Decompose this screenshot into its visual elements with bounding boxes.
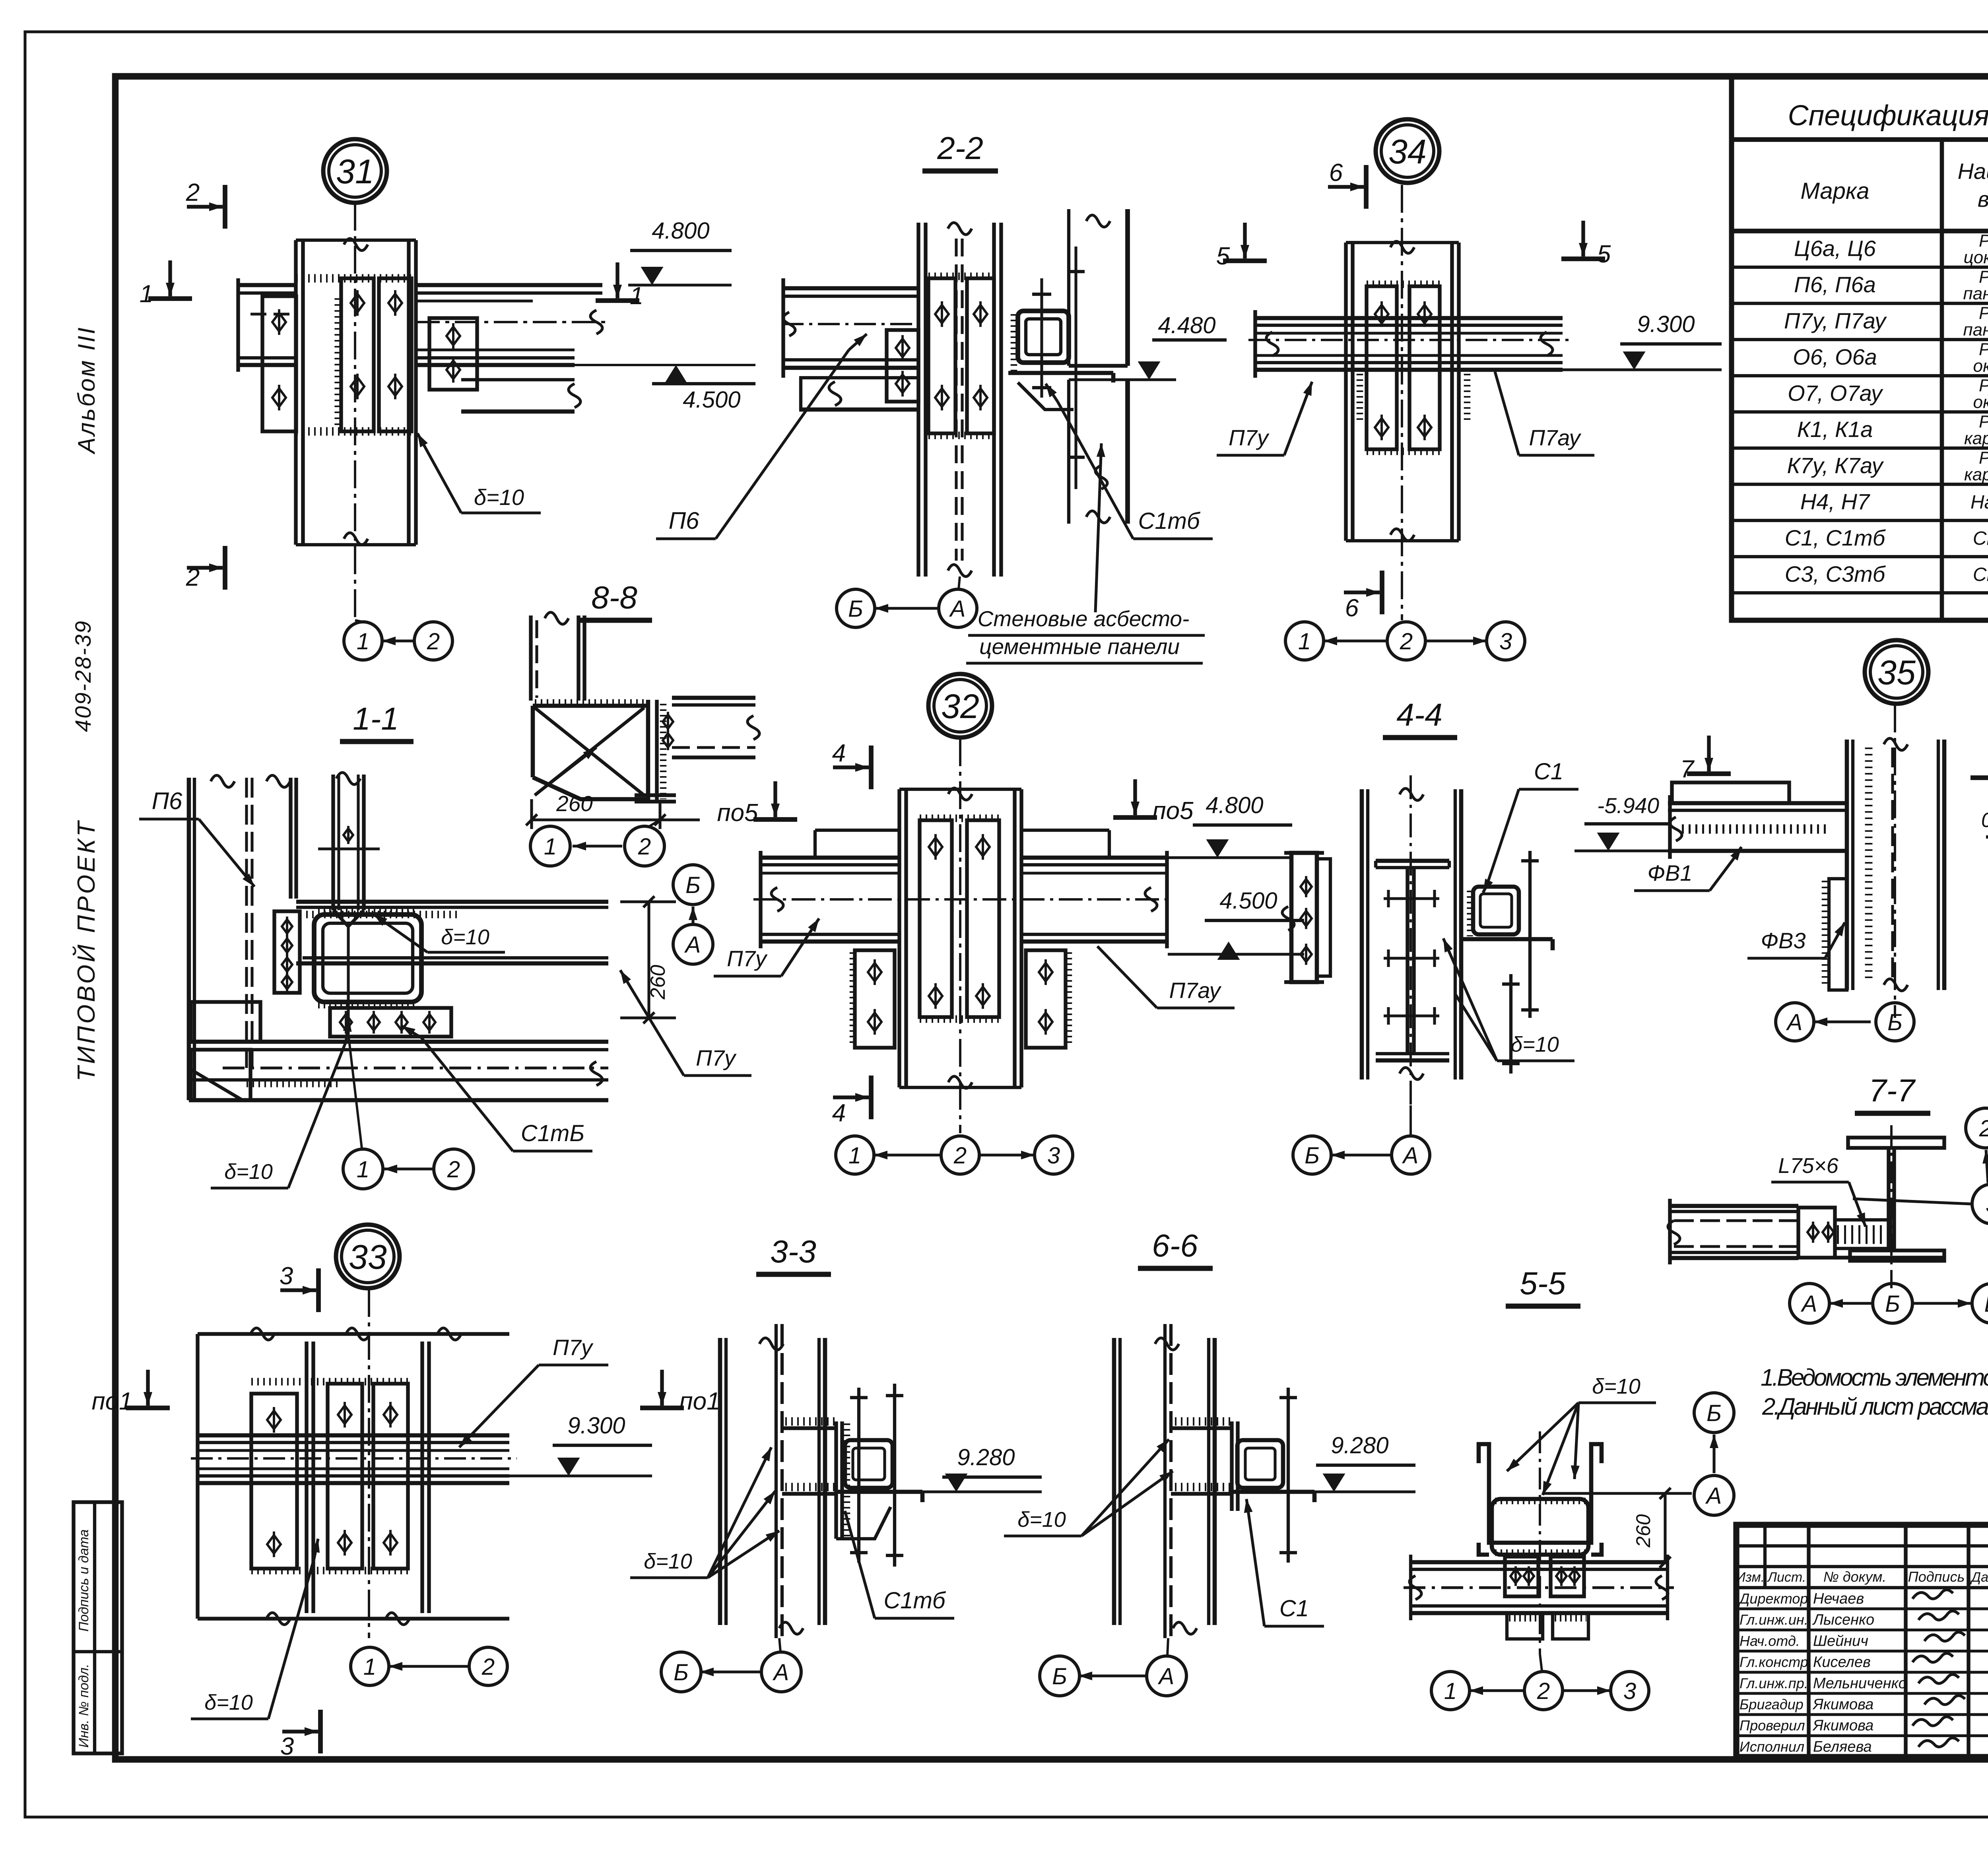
section 2-2 bbox=[782, 130, 1227, 663]
svg-text:П7у: П7у bbox=[696, 1045, 737, 1070]
svg-text:1: 1 bbox=[1444, 1678, 1457, 1704]
grid bubbles 2-3 bbox=[1966, 1108, 1988, 1148]
svg-text:Б: Б bbox=[685, 872, 701, 898]
svg-text:δ=10: δ=10 bbox=[441, 925, 489, 949]
svg-text:П7ау: П7ау bbox=[1529, 425, 1581, 450]
svg-text:4: 4 bbox=[832, 740, 846, 767]
svg-text:2: 2 bbox=[638, 834, 651, 860]
section 7-7 bbox=[1668, 1073, 1988, 1323]
svg-text:4.500: 4.500 bbox=[1219, 888, 1277, 914]
svg-text:δ=10: δ=10 bbox=[1592, 1375, 1640, 1398]
sidebar album text bbox=[73, 326, 100, 454]
label P6 leader bbox=[656, 334, 867, 539]
svg-text:4: 4 bbox=[832, 1099, 846, 1127]
svg-text:С1: С1 bbox=[1534, 759, 1563, 784]
svg-text:П7у: П7у bbox=[553, 1335, 594, 1360]
square tube S1 bbox=[1237, 1440, 1283, 1488]
svg-text:32: 32 bbox=[941, 687, 979, 726]
svg-text:260: 260 bbox=[556, 791, 593, 816]
svg-text:П7у, П7ау: П7у, П7ау bbox=[1784, 308, 1887, 333]
grid bubbles 1-2-3 bbox=[1285, 622, 1324, 660]
grid bubbles 1-2 bbox=[530, 826, 570, 866]
svg-text:5: 5 bbox=[1597, 241, 1611, 268]
grid bubbles 1-2 bbox=[344, 622, 382, 660]
grid bubbles 1-2 bbox=[343, 1149, 383, 1189]
svg-text:Дата: Дата bbox=[1970, 1570, 1988, 1585]
svg-text:34: 34 bbox=[1388, 133, 1427, 171]
svg-text:Исполнил: Исполнил bbox=[1739, 1738, 1804, 1755]
elevation 4.500 bbox=[664, 365, 687, 383]
svg-text:1: 1 bbox=[357, 629, 369, 654]
svg-text:7: 7 bbox=[1680, 755, 1695, 783]
svg-text:δ=10: δ=10 bbox=[224, 1160, 273, 1184]
svg-text:карнизный: карнизный bbox=[1964, 465, 1988, 484]
svg-text:П7у: П7у bbox=[727, 946, 768, 971]
svg-text:оконный: оконный bbox=[1973, 356, 1988, 376]
grid bubbles 1-2 bbox=[351, 1647, 389, 1685]
svg-text:Киселев: Киселев bbox=[1813, 1654, 1871, 1671]
svg-text:П7у: П7у bbox=[1229, 425, 1270, 450]
grid bubbles B-A bbox=[837, 589, 875, 627]
svg-text:Якимова: Якимова bbox=[1812, 1696, 1873, 1713]
section 6-6 bbox=[1004, 1228, 1415, 1696]
svg-text:Нечаев: Нечаев bbox=[1813, 1590, 1864, 1607]
svg-text:ТИПОВОЙ ПРОЕКТ: ТИПОВОЙ ПРОЕКТ bbox=[72, 819, 100, 1081]
svg-text:Лысенко: Лысенко bbox=[1812, 1611, 1874, 1628]
square tube S1 bbox=[1473, 887, 1519, 934]
svg-text:ФВ1: ФВ1 bbox=[1647, 860, 1692, 885]
section 3-3 bbox=[661, 1234, 1042, 1692]
svg-text:Беляева: Беляева bbox=[1813, 1738, 1872, 1755]
svg-text:7-7: 7-7 bbox=[1869, 1073, 1916, 1108]
svg-text:9.300: 9.300 bbox=[567, 1413, 625, 1439]
svg-text:4.800: 4.800 bbox=[1206, 792, 1263, 818]
svg-text:5-5: 5-5 bbox=[1520, 1266, 1566, 1301]
svg-text:δ=10: δ=10 bbox=[474, 485, 524, 510]
svg-text:Инв. № подл.: Инв. № подл. bbox=[76, 1664, 91, 1748]
svg-text:1: 1 bbox=[357, 1157, 369, 1182]
svg-text:Гл.инж.пр.: Гл.инж.пр. bbox=[1739, 1675, 1808, 1691]
grid bubbles 1-2-3 bbox=[1431, 1672, 1470, 1710]
grid bubbles B-A vertical bbox=[673, 865, 713, 964]
square tube plan bbox=[314, 914, 421, 1002]
svg-text:цокольный: цокольный bbox=[1964, 248, 1988, 267]
svg-text:Бригадир: Бригадир bbox=[1739, 1696, 1804, 1712]
svg-text:С1тб: С1тб bbox=[1138, 508, 1200, 534]
svg-text:С3, С3тб: С3, С3тб bbox=[1785, 561, 1886, 586]
svg-text:31: 31 bbox=[336, 153, 374, 191]
svg-text:2: 2 bbox=[1400, 629, 1413, 654]
detail node 35 bbox=[1574, 640, 1988, 1041]
general notes bbox=[1761, 1364, 1988, 1420]
grid bubbles 1-2-3 bbox=[836, 1136, 874, 1174]
sidebar stamp box bbox=[74, 1502, 122, 1753]
svg-text:вание: вание bbox=[1978, 186, 1988, 212]
grid bubbles A-B bbox=[1776, 1003, 1814, 1041]
svg-text:карнизный: карнизный bbox=[1964, 429, 1988, 448]
svg-text:6-6: 6-6 bbox=[1152, 1228, 1198, 1263]
svg-text:А: А bbox=[949, 596, 966, 622]
svg-text:2: 2 bbox=[1979, 1116, 1988, 1142]
svg-text:1: 1 bbox=[544, 834, 557, 860]
grid bubbles B-A bbox=[1040, 1656, 1079, 1696]
svg-text:по5: по5 bbox=[717, 799, 758, 827]
svg-text:Изм.: Изм. bbox=[1736, 1570, 1765, 1585]
svg-text:1-1: 1-1 bbox=[353, 701, 399, 736]
svg-text:3: 3 bbox=[1623, 1678, 1636, 1704]
svg-text:0.000: 0.000 bbox=[1981, 809, 1988, 832]
svg-text:Б: Б bbox=[848, 596, 863, 622]
svg-text:2.Данный лист рассматривать со: 2.Данный лист рассматривать совместно с … bbox=[1762, 1393, 1988, 1420]
svg-text:260: 260 bbox=[1632, 1514, 1654, 1548]
svg-text:1: 1 bbox=[363, 1654, 376, 1680]
svg-text:L75×6: L75×6 bbox=[1778, 1154, 1839, 1178]
detail node 31 bbox=[140, 139, 755, 660]
svg-text:А: А bbox=[684, 932, 701, 958]
svg-text:6: 6 bbox=[1329, 159, 1343, 186]
svg-text:Столик: Столик bbox=[1973, 528, 1988, 549]
svg-text:3: 3 bbox=[1986, 1192, 1988, 1217]
svg-text:цементные панели: цементные панели bbox=[979, 634, 1180, 659]
dim 260 vertical bbox=[647, 902, 650, 1018]
svg-text:А: А bbox=[773, 1660, 789, 1685]
svg-text:-5.940: -5.940 bbox=[1597, 793, 1659, 818]
svg-text:35: 35 bbox=[1877, 654, 1916, 692]
svg-text:δ=10: δ=10 bbox=[1017, 1508, 1066, 1532]
svg-text:5: 5 bbox=[1216, 243, 1230, 270]
detail node 33 bbox=[91, 1225, 720, 1760]
svg-text:Директор: Директор bbox=[1738, 1590, 1808, 1607]
svg-text:2: 2 bbox=[186, 564, 200, 591]
svg-text:3: 3 bbox=[280, 1262, 293, 1290]
svg-text:4.500: 4.500 bbox=[683, 387, 740, 413]
svg-text:О6, О6а: О6, О6а bbox=[1793, 344, 1877, 369]
svg-text:П6, П6а: П6, П6а bbox=[1794, 272, 1876, 297]
grid bubbles A-B-V bbox=[1790, 1283, 1829, 1323]
svg-text:Нач.отд.: Нач.отд. bbox=[1739, 1633, 1800, 1649]
detail node 32 bbox=[714, 674, 1304, 1174]
svg-text:4-4: 4-4 bbox=[1396, 697, 1442, 732]
svg-text:2: 2 bbox=[1537, 1678, 1550, 1704]
label d=10 with fan leaders bbox=[630, 1447, 779, 1578]
svg-text:А: А bbox=[1705, 1483, 1722, 1509]
svg-text:Подпись: Подпись bbox=[1908, 1569, 1965, 1585]
svg-text:9.280: 9.280 bbox=[1331, 1433, 1388, 1458]
dim 260 bbox=[1664, 1493, 1666, 1562]
svg-text:Проверил: Проверил bbox=[1739, 1717, 1805, 1734]
svg-text:3: 3 bbox=[280, 1733, 294, 1760]
svg-text:В: В bbox=[1984, 1291, 1988, 1317]
svg-text:Наимено-: Наимено- bbox=[1958, 159, 1988, 184]
svg-text:Б: Б bbox=[1052, 1664, 1067, 1689]
svg-text:8-8: 8-8 bbox=[591, 580, 637, 615]
svg-text:260: 260 bbox=[646, 965, 670, 1000]
svg-text:К7у, К7ау: К7у, К7ау bbox=[1787, 453, 1884, 478]
svg-text:6: 6 bbox=[1345, 594, 1359, 622]
svg-text:Якимова: Якимова bbox=[1812, 1717, 1873, 1734]
svg-text:П7ау: П7ау bbox=[1169, 978, 1221, 1003]
svg-text:4.800: 4.800 bbox=[652, 218, 709, 244]
section 4-4 bbox=[1282, 697, 1578, 1174]
svg-text:33: 33 bbox=[349, 1238, 387, 1276]
svg-text:С1тБ: С1тБ bbox=[521, 1120, 584, 1146]
sidebar project text bbox=[70, 620, 100, 1081]
section 1-1 bbox=[139, 701, 751, 1189]
svg-text:Б: Б bbox=[1706, 1400, 1722, 1426]
svg-text:δ=10: δ=10 bbox=[204, 1691, 253, 1714]
svg-text:Столик: Столик bbox=[1973, 564, 1988, 585]
svg-text:О7, О7ау: О7, О7ау bbox=[1788, 381, 1883, 406]
svg-text:С1, С1тб: С1, С1тб bbox=[1785, 525, 1886, 550]
svg-text:Шейнич: Шейнич bbox=[1813, 1633, 1868, 1649]
svg-text:Н4, Н7: Н4, Н7 bbox=[1800, 489, 1870, 514]
svg-text:Мельниченко: Мельниченко bbox=[1813, 1675, 1907, 1692]
svg-text:Стеновые асбесто-: Стеновые асбесто- bbox=[978, 606, 1190, 631]
svg-text:4.480: 4.480 bbox=[1158, 313, 1215, 338]
svg-text:П6: П6 bbox=[152, 788, 182, 814]
svg-text:по5: по5 bbox=[1152, 797, 1194, 825]
svg-text:1: 1 bbox=[140, 280, 153, 308]
svg-text:Насадки: Насадки bbox=[1971, 492, 1988, 513]
svg-text:Гл.инж.ин.: Гл.инж.ин. bbox=[1739, 1611, 1808, 1628]
svg-text:1.Ведомость элементов и общие: 1.Ведомость элементов и общие примечания… bbox=[1761, 1364, 1988, 1391]
svg-text:Лист.: Лист. bbox=[1767, 1570, 1806, 1585]
svg-text:панельный: панельный bbox=[1963, 320, 1988, 340]
svg-text:Спецификация: Спецификация bbox=[1788, 100, 1988, 132]
svg-text:2: 2 bbox=[447, 1157, 460, 1182]
svg-text:2: 2 bbox=[953, 1143, 967, 1169]
square tube S1tb bbox=[1018, 311, 1069, 363]
svg-text:№ докум.: № докум. bbox=[1823, 1569, 1887, 1585]
svg-text:С1тб: С1тб bbox=[883, 1588, 946, 1613]
svg-text:Б: Б bbox=[1887, 1010, 1903, 1035]
svg-text:9.280: 9.280 bbox=[957, 1445, 1015, 1470]
svg-text:К1, К1а: К1, К1а bbox=[1797, 417, 1873, 442]
grid bubbles B-A bbox=[661, 1652, 701, 1692]
grid bubbles B-A bbox=[1694, 1393, 1734, 1433]
svg-text:Подпись и дата: Подпись и дата bbox=[76, 1529, 91, 1631]
svg-text:С1: С1 bbox=[1279, 1596, 1309, 1621]
svg-text:по1: по1 bbox=[91, 1388, 132, 1415]
svg-text:δ=10: δ=10 bbox=[644, 1549, 692, 1573]
square tube S1tb bbox=[845, 1440, 893, 1488]
svg-text:Марка: Марка bbox=[1800, 178, 1869, 204]
svg-text:А: А bbox=[1801, 1291, 1817, 1317]
svg-text:А: А bbox=[1786, 1010, 1803, 1035]
svg-text:409-28-39: 409-28-39 bbox=[70, 620, 95, 732]
svg-text:П6: П6 bbox=[669, 507, 699, 534]
svg-text:2: 2 bbox=[186, 179, 200, 206]
svg-text:3: 3 bbox=[1499, 629, 1512, 654]
section 5-5 bbox=[1404, 1266, 1734, 1710]
svg-text:1: 1 bbox=[848, 1143, 861, 1169]
svg-text:Б: Б bbox=[1885, 1291, 1900, 1317]
svg-text:9.300: 9.300 bbox=[1637, 311, 1695, 337]
svg-text:Б: Б bbox=[674, 1660, 689, 1685]
svg-text:Б: Б bbox=[1305, 1143, 1320, 1169]
svg-text:Ц6а, Ц6: Ц6а, Ц6 bbox=[1794, 236, 1876, 261]
detail node 18 bbox=[1981, 636, 1988, 1061]
svg-text:δ=10: δ=10 bbox=[1510, 1033, 1559, 1056]
svg-text:А: А bbox=[1158, 1664, 1175, 1689]
grid bubbles B-A bbox=[1293, 1136, 1331, 1174]
svg-text:оконный: оконный bbox=[1973, 392, 1988, 412]
detail node 34 bbox=[1216, 119, 1722, 660]
svg-text:1: 1 bbox=[1298, 629, 1311, 654]
svg-text:2: 2 bbox=[427, 629, 440, 654]
svg-text:2-2: 2-2 bbox=[937, 130, 983, 166]
specification table bbox=[1732, 76, 1988, 620]
svg-text:ФВ3: ФВ3 bbox=[1761, 928, 1806, 953]
svg-text:по1: по1 bbox=[679, 1388, 720, 1415]
svg-text:3: 3 bbox=[1047, 1143, 1060, 1169]
title block bbox=[1736, 1525, 1988, 1758]
svg-text:Гл.констр.: Гл.констр. bbox=[1739, 1654, 1812, 1670]
svg-text:панельный: панельный bbox=[1963, 284, 1988, 303]
svg-text:3-3: 3-3 bbox=[770, 1234, 816, 1269]
section 8-8 bbox=[526, 580, 759, 866]
svg-text:Альбом III: Альбом III bbox=[73, 326, 100, 454]
svg-text:2: 2 bbox=[481, 1654, 495, 1680]
svg-text:А: А bbox=[1402, 1143, 1419, 1169]
